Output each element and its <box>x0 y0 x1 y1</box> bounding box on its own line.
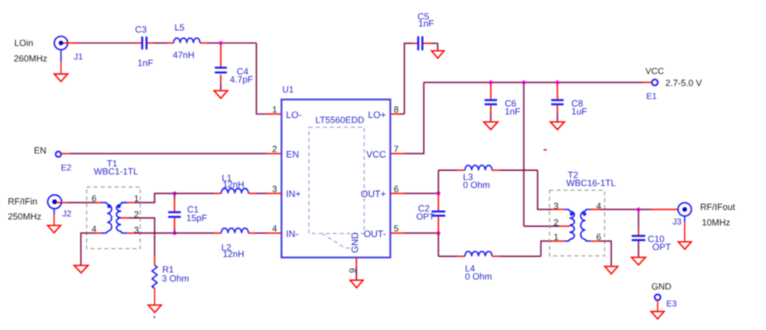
svg-text:J1: J1 <box>74 52 83 62</box>
svg-text:47nH: 47nH <box>173 50 195 60</box>
svg-text:8: 8 <box>394 104 399 114</box>
svg-text:OPT: OPT <box>416 211 435 221</box>
svg-text:VCC: VCC <box>645 66 664 76</box>
svg-text:1nF: 1nF <box>138 58 154 68</box>
svg-text:1nF: 1nF <box>505 106 521 116</box>
svg-text:GND: GND <box>350 232 360 253</box>
svg-text:EN: EN <box>34 145 47 155</box>
svg-text:1: 1 <box>134 193 139 203</box>
svg-text:OUT-: OUT- <box>364 228 386 239</box>
svg-text:250MHz: 250MHz <box>8 212 42 222</box>
svg-text:10MHz: 10MHz <box>702 218 731 228</box>
svg-text:RF/IFin: RF/IFin <box>8 196 38 206</box>
svg-text:LO-: LO- <box>286 109 302 120</box>
svg-text:OUT+: OUT+ <box>361 188 387 199</box>
svg-text:15pF: 15pF <box>186 213 207 223</box>
svg-text:OPT: OPT <box>652 242 671 252</box>
svg-text:GND: GND <box>651 282 672 292</box>
svg-text:VCC: VCC <box>366 149 386 160</box>
svg-text:2: 2 <box>272 144 277 154</box>
svg-text:2: 2 <box>554 218 559 228</box>
svg-text:0 Ohm: 0 Ohm <box>465 272 492 282</box>
svg-text:0 Ohm: 0 Ohm <box>463 180 490 190</box>
svg-text:EN: EN <box>286 149 299 160</box>
svg-text:1: 1 <box>272 104 277 114</box>
svg-text:6: 6 <box>394 184 399 194</box>
svg-text:1nF: 1nF <box>418 18 434 28</box>
svg-text:LO+: LO+ <box>368 109 387 120</box>
svg-text:LT5560EDD: LT5560EDD <box>315 115 364 125</box>
svg-text:3: 3 <box>272 184 277 194</box>
svg-text:12nH: 12nH <box>223 249 245 259</box>
svg-text:4.7pF: 4.7pF <box>230 75 254 85</box>
svg-text:1: 1 <box>554 232 559 242</box>
svg-text:L5: L5 <box>175 23 185 33</box>
svg-text:3 Ohm: 3 Ohm <box>162 274 189 284</box>
svg-text:2.7-5.0 V: 2.7-5.0 V <box>665 78 702 88</box>
svg-text:J2: J2 <box>62 209 71 219</box>
svg-text:7: 7 <box>394 144 399 154</box>
svg-text:LOin: LOin <box>14 38 33 48</box>
svg-text:RF/IFout: RF/IFout <box>700 202 736 212</box>
svg-text:9: 9 <box>348 268 358 273</box>
svg-text:E2: E2 <box>61 162 72 172</box>
svg-text:J3: J3 <box>673 216 682 226</box>
svg-text:5: 5 <box>394 224 399 234</box>
svg-text:WBC16-1TL: WBC16-1TL <box>566 178 616 188</box>
svg-text:4: 4 <box>272 224 277 234</box>
svg-text:12nH: 12nH <box>223 180 245 190</box>
svg-text:3: 3 <box>554 201 559 211</box>
svg-text:IN-: IN- <box>286 228 299 239</box>
svg-text:IN+: IN+ <box>286 188 301 199</box>
svg-text:1uF: 1uF <box>571 106 587 116</box>
svg-text:U1: U1 <box>282 84 294 94</box>
svg-text:E3: E3 <box>666 298 677 308</box>
svg-text:C3: C3 <box>135 25 147 35</box>
svg-text:WBC1-1TL: WBC1-1TL <box>94 167 139 177</box>
svg-text:E1: E1 <box>646 91 657 101</box>
svg-text:6: 6 <box>92 193 97 203</box>
svg-text:260MHz: 260MHz <box>14 53 48 63</box>
